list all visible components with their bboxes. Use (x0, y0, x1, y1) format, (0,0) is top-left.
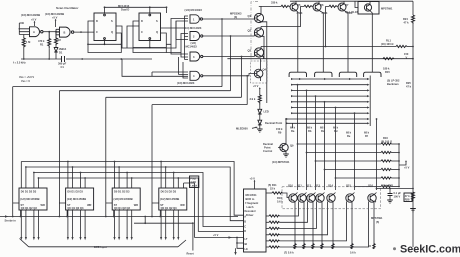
top collector rail (290, 0, 413, 2)
latch U3 MC14508B box (112, 188, 140, 210)
svg-text:(1/3) MC14023B: (1/3) MC14023B (21, 13, 40, 17)
resistor R28 47k (404, 192, 415, 202)
R16 (8) 100 label (381, 136, 392, 144)
BCD input brace (20, 239, 187, 250)
svg-text:B: B (64, 30, 66, 34)
svg-text:R16: R16 (383, 136, 388, 140)
svg-text:R28: R28 (405, 198, 410, 202)
wire gate B out to FF1 (74, 31, 94, 33)
Beckman display label (387, 79, 400, 87)
display module tub 3 (339, 72, 356, 77)
latch U1 MC14508B box (19, 188, 47, 210)
diode D1 1N914 (54, 45, 67, 59)
svg-text:(5) R11: (5) R11 (268, 183, 277, 187)
svg-text:(1/2) MC14508B: (1/2) MC14508B (114, 197, 133, 201)
svg-text:B: B (244, 219, 246, 223)
4511 output resistors (266, 192, 369, 248)
latch4 output arrows (160, 210, 179, 240)
transistor Q3 (248, 18, 264, 59)
svg-text:D: D (244, 229, 246, 233)
latch1 Q pin labels (21, 206, 38, 210)
svg-text:R25: R25 (406, 81, 411, 85)
latch3 input taps (114, 161, 133, 188)
svg-text:MC14511: MC14511 (246, 193, 258, 197)
transistor Q11 (297, 184, 307, 250)
svg-text:Decimal: Decimal (263, 142, 273, 146)
svg-text:Q3: Q3 (248, 49, 252, 53)
wire G4 out to Q4 (203, 74, 255, 76)
svg-text:+5 V: +5 V (31, 18, 37, 22)
svg-text:3563: 3563 (322, 11, 328, 15)
resistor column labels row (290, 126, 370, 139)
svg-text:+5 V: +5 V (52, 16, 58, 20)
latch1 input taps (21, 162, 39, 189)
label (1/4) MC14023 G3 (186, 41, 198, 49)
svg-text:Q13: Q13 (315, 184, 320, 188)
node R1 tap (48, 31, 50, 33)
decimal point driver Q4 in dashed box (251, 59, 268, 83)
svg-text:D0 D1 D2 D3: D0 D1 D2 D3 (114, 189, 130, 193)
transistor Q10 (288, 184, 298, 250)
title Scan Oscillator (56, 6, 79, 10)
svg-text:LED: LED (264, 110, 269, 114)
NAND gate G3 (190, 52, 203, 61)
svg-text:3.9 k: 3.9 k (250, 97, 256, 101)
display module tub 4 (364, 72, 381, 77)
svg-text:Dual D: Dual D (121, 8, 129, 12)
NAND gate G4 (190, 71, 203, 80)
display module tub 2 (315, 72, 332, 77)
display module tub 1 (289, 72, 306, 77)
svg-text:Q11: Q11 (297, 184, 302, 188)
svg-text:D0 D1 D2 D3: D0 D1 D2 D3 (21, 189, 37, 193)
transistor Q6 with base resistor (261, 1, 328, 72)
svg-text:R2: R2 (58, 38, 62, 42)
+5V arrow gate A (31, 18, 37, 27)
svg-text:MC14023: MC14023 (186, 44, 198, 48)
capacitor 0.1uF (388, 188, 402, 200)
svg-text:R16: R16 (277, 196, 282, 200)
(1/4) MPS7041 label (272, 160, 290, 164)
svg-text:Q12: Q12 (306, 184, 311, 188)
label (1/3) MC14023 G4 (177, 81, 195, 85)
svg-text:Q14: Q14 (328, 184, 333, 188)
svg-text:(1/4) MC14023: (1/4) MC14023 (185, 8, 203, 12)
ground below Q9 (283, 154, 289, 157)
svg-text:Q0 Q1 Q2 Q3: Q0 Q1 Q2 Q3 (67, 206, 84, 210)
svg-text:C: C (96, 30, 98, 34)
svg-text:(1/3) MC14023: (1/3) MC14023 (177, 81, 195, 85)
capacitor C1 390pF in bottom rail (21, 56, 152, 69)
svg-text:Q10: Q10 (288, 184, 293, 188)
right bus lower marks (284, 246, 371, 255)
svg-text:22 k: 22 k (270, 187, 276, 191)
svg-text:68 k: 68 k (364, 131, 370, 135)
top right bottom area: line y188.5 (376, 184, 414, 190)
svg-text:D0 D1 D2 D3: D0 D1 D2 D3 (67, 189, 83, 193)
wire FF1/FF2 to gate risers (121, 16, 188, 78)
svg-text:47 k: 47 k (404, 21, 410, 25)
330k label (271, 0, 278, 4)
data line 4 (39, 178, 244, 231)
svg-text:WR: WR (134, 203, 138, 207)
4511 LT BI LE pin wires and +5V (195, 233, 244, 255)
svg-text:BI: BI (245, 242, 248, 246)
svg-text:Rf: Rf (365, 134, 368, 138)
svg-text:Q4: Q4 (263, 68, 267, 72)
svg-text:WR: WR (87, 203, 91, 207)
svg-text:0.1 µF: 0.1 µF (394, 191, 402, 195)
label (1/4) MC14023 G1 (185, 8, 203, 12)
svg-text:Q1: Q1 (248, 14, 252, 18)
svg-text:D: D (96, 19, 98, 23)
svg-text:+5 V: +5 V (253, 84, 259, 88)
resistor ladder rows (297, 143, 399, 188)
svg-text:+5 V: +5 V (404, 166, 410, 170)
f = 2.5 kHz label (13, 61, 26, 65)
MPS7691 (5) label (371, 216, 383, 224)
svg-text:7-Segment: 7-Segment (245, 201, 258, 205)
resistor R24 47k on right bus (403, 1, 415, 247)
resistor R15 180k in rail (383, 58, 394, 75)
svg-text:Q2: Q2 (248, 29, 252, 33)
svg-text:(1/4) MPS7041: (1/4) MPS7041 (272, 160, 290, 164)
svg-text:R9: R9 (278, 131, 282, 135)
svg-text:Decoder/: Decoder/ (245, 209, 256, 213)
svg-text:BCD Input: BCD Input (94, 245, 107, 249)
NAND gate B (56, 27, 74, 37)
svg-text:47 k: 47 k (406, 85, 412, 89)
svg-text:A: A (33, 30, 35, 34)
svg-text:+5 V: +5 V (250, 177, 256, 181)
transistor Q7 with base resistor (261, 1, 396, 72)
MPS3563 label (230, 12, 242, 19)
flip-flop FF2 box (139, 13, 161, 41)
flip-flop FF1 box (94, 13, 116, 41)
transistor Q15 (346, 184, 355, 250)
wire G2 out (203, 35, 255, 37)
svg-text:C1: C1 (61, 65, 65, 69)
data line 2 (26, 167, 244, 221)
DL1-DL16 label (345, 10, 358, 14)
NAND gate G1 (190, 15, 202, 23)
bus line B2 (59, 35, 231, 216)
svg-text:470 k: 470 k (38, 39, 45, 43)
emitter resistors (7) 5.6k (294, 244, 375, 249)
svg-text:MPS7691: MPS7691 (381, 7, 393, 11)
svg-text:Ra: Ra (291, 129, 295, 133)
SeekIC watermark (393, 243, 460, 255)
svg-text:68 k: 68 k (290, 126, 296, 130)
ground below LEDs (257, 129, 263, 132)
dashed module boundary around Q10-Q16 (282, 187, 381, 209)
ground below cap (387, 200, 393, 203)
svg-text:(1/4) MC14023: (1/4) MC14023 (184, 26, 202, 30)
svg-text:BCD to: BCD to (246, 197, 255, 201)
MLED500 label + arrow (236, 127, 258, 131)
NAND gate A (24, 27, 43, 37)
svg-text:1N914: 1N914 (59, 47, 67, 51)
svg-text:LT: LT (245, 237, 248, 241)
svg-text:D0 D1 D2 D3: D0 D1 D2 D3 (161, 189, 177, 193)
Pout 4-bit latch label box (190, 176, 199, 188)
svg-text:Q0 Q1 Q2 Q3: Q0 Q1 Q2 Q3 (161, 206, 178, 210)
svg-text:R24: R24 (403, 17, 408, 21)
latch4 input taps (160, 161, 179, 188)
R16 5.6k label (277, 196, 283, 204)
svg-text:68 k: 68 k (307, 126, 313, 130)
svg-text:Latch: Latch (190, 184, 197, 188)
DATA BUS BUNDLE (21, 162, 243, 238)
svg-text:Reset: Reset (187, 252, 194, 256)
svg-text:Beckman: Beckman (387, 82, 399, 86)
wire G3 out (203, 56, 255, 58)
+5V ladder arrow (399, 160, 410, 169)
svg-text:Q5: Q5 (297, 3, 301, 7)
svg-text:Latch: Latch (247, 205, 254, 209)
Reset label (134, 216, 194, 256)
svg-text:(5) LP-352: (5) LP-352 (387, 79, 400, 83)
MC14511 box (244, 189, 267, 252)
display pin column border (369, 76, 371, 127)
latch3 output arrows (113, 210, 132, 240)
svg-text:A: A (244, 215, 246, 219)
svg-text:WR: WR (180, 203, 184, 207)
svg-text:68 k: 68 k (346, 131, 352, 135)
svg-text:Strobe in: Strobe in (5, 219, 17, 223)
latch2 input taps (67, 161, 86, 188)
svg-text:Q0 Q1 Q2 Q3: Q0 Q1 Q2 Q3 (114, 206, 131, 210)
svg-text:Q6: Q6 (320, 3, 324, 7)
svg-text:Q15: Q15 (346, 184, 351, 188)
label (1/3) MC14023B gate A (21, 13, 40, 17)
svg-text:47 k: 47 k (405, 194, 411, 198)
svg-text:Q16: Q16 (368, 184, 373, 188)
svg-text:5.6 k: 5.6 k (350, 251, 356, 255)
label (1/4) MC14023 G2 (184, 26, 202, 30)
MC14013 label (118, 4, 130, 12)
svg-text:68 k: 68 k (333, 126, 339, 130)
(5) R11 22k label (268, 183, 277, 191)
svg-text:330 k: 330 k (271, 0, 278, 4)
transistor Q14 (327, 184, 336, 250)
svg-text:Q: Q (156, 30, 158, 34)
LED 1 (258, 105, 269, 121)
transistor Q1 (248, 6, 267, 103)
Decimal Point label (265, 121, 282, 125)
svg-text:f ≈ 2.5 kHz: f ≈ 2.5 kHz (13, 61, 26, 65)
svg-text:Rd: Rd (334, 129, 338, 133)
data line 5 to LT (184, 183, 195, 238)
bus line B4 (152, 75, 248, 217)
resistor 1M (22, 37, 30, 59)
transistor Q12 (306, 184, 316, 250)
svg-text:VSS = 0: VSS = 0 (21, 79, 30, 83)
150k R9 label (276, 127, 283, 135)
segment column verticals (297, 84, 378, 190)
FF2 feedback loop (116, 21, 166, 53)
svg-text:330 k R23: 330 k R23 (381, 184, 394, 188)
svg-text:Pout: Pout (190, 177, 196, 181)
Decimal Point Control label (263, 142, 273, 153)
svg-text:(1/3) MC14023B: (1/3) MC14023B (45, 12, 64, 16)
transistor Q5 with base resistor (259, 1, 303, 72)
top rail y7 (105, 6, 168, 13)
transistor Q16 (368, 184, 377, 250)
Vdd Vss note (19, 75, 34, 83)
svg-text:(1/2) MC14508B: (1/2) MC14508B (160, 197, 179, 201)
bus line B3 (106, 56, 243, 217)
svg-text:DL1~DL16: DL1~DL16 (345, 10, 358, 14)
+5V arrow gate B (52, 16, 58, 28)
latch2 output arrows (67, 210, 86, 240)
svg-text:S: S (156, 19, 158, 23)
wire gate A out to gate B (43, 31, 59, 33)
node R2 tap (55, 31, 57, 33)
NAND gate G2 (190, 32, 203, 41)
latch1 output arrows (20, 210, 39, 240)
svg-text:Re: Re (347, 134, 351, 138)
segment row lines with arrows (286, 78, 370, 128)
resistor 3.9k (250, 94, 262, 105)
svg-text:R15: R15 (385, 70, 390, 74)
label (1/3) MC14023B gate B (45, 12, 64, 16)
svg-text:(1/2) MC14508B: (1/2) MC14508B (20, 197, 39, 201)
svg-text:3563: 3563 (297, 11, 303, 15)
wire G1 out (203, 18, 255, 20)
svg-text:Scan Oscillator: Scan Oscillator (56, 6, 79, 10)
FF2 top wire (149, 6, 151, 13)
svg-text:+5 V: +5 V (213, 233, 219, 237)
svg-text:Rc: Rc (321, 129, 325, 133)
svg-text:C: C (244, 224, 246, 228)
transistor Q2 (248, 27, 265, 59)
transistor Q9 (278, 118, 294, 154)
ground right bus (410, 209, 416, 212)
svg-text:MLED500: MLED500 (236, 127, 248, 131)
svg-text:S: S (111, 19, 113, 23)
svg-text:Decimal Point: Decimal Point (265, 121, 282, 125)
svg-text:(16) 100 Ω: (16) 100 Ω (381, 42, 393, 46)
svg-text:Q: Q (111, 30, 113, 34)
svg-text:Driver: Driver (246, 213, 254, 217)
svg-text:5.6 k: 5.6 k (277, 200, 283, 204)
svg-text:68 k: 68 k (320, 126, 326, 130)
svg-text:Control: Control (263, 149, 272, 153)
latch U2 MC14508B box (66, 188, 94, 210)
svg-text:150 k: 150 k (276, 127, 283, 131)
latch3 Q pin labels (114, 206, 131, 210)
svg-text:D: D (141, 19, 143, 23)
transistor Q13 (315, 184, 325, 250)
svg-text:D1: D1 (59, 51, 63, 55)
svg-text:Rb: Rb (308, 129, 312, 133)
resistor R2 (55, 32, 62, 46)
svg-text:(5): (5) (376, 220, 379, 224)
FF1 feedback loop (87, 21, 122, 53)
svg-text:(1/3): (1/3) (191, 41, 196, 45)
svg-text:SeekIC.com: SeekIC.com (400, 243, 460, 255)
+5V to 4511 (250, 177, 256, 190)
svg-text:WR: WR (41, 203, 45, 207)
svg-text:R1: R1 (40, 43, 44, 47)
+5V decimal (253, 84, 261, 94)
latch4 Q pin labels (161, 206, 178, 210)
input terminal (19, 22, 30, 34)
svg-text:Q9: Q9 (290, 144, 294, 148)
latch2 Q pin labels (67, 206, 84, 210)
rail y58.7 (227, 58, 413, 60)
svg-text:Point: Point (264, 146, 271, 150)
svg-text:RL1: RL1 (386, 39, 391, 43)
bus line B1 (13, 18, 223, 216)
data line 3 (34, 173, 244, 227)
svg-text:Q7: Q7 (345, 3, 349, 7)
LED 2 (258, 120, 262, 129)
svg-text:100 V: 100 V (394, 195, 401, 199)
svg-text:4-Bit: 4-Bit (190, 180, 196, 184)
svg-text:(3): (3) (234, 15, 237, 19)
ladder bus vertical (398, 143, 400, 187)
svg-text:1 M: 1 M (26, 40, 30, 44)
data line 1 (21, 162, 243, 216)
strobe line (0, 210, 238, 223)
transistor Q8 in box (355, 1, 393, 72)
svg-text:180 k: 180 k (383, 67, 390, 71)
svg-text:(7) 5.6 k: (7) 5.6 k (284, 251, 294, 255)
latch U4 MC14508B box (159, 188, 187, 210)
RL1 (16) 100 ohm (325, 39, 414, 48)
svg-text:(1/2) MC14508B: (1/2) MC14508B (67, 197, 86, 201)
dash-dot separator (251, 2, 258, 61)
svg-text:MPS7691: MPS7691 (371, 216, 383, 220)
svg-text:Q0 Q1 Q2 Q3: Q0 Q1 Q2 Q3 (21, 206, 38, 210)
R25 47k label (406, 81, 412, 89)
svg-text:C: C (141, 30, 143, 34)
svg-text:LE: LE (245, 247, 249, 251)
FF1 top wire to rail (104, 6, 106, 13)
150 V label (404, 52, 414, 60)
resistor R1 470k (38, 32, 51, 59)
